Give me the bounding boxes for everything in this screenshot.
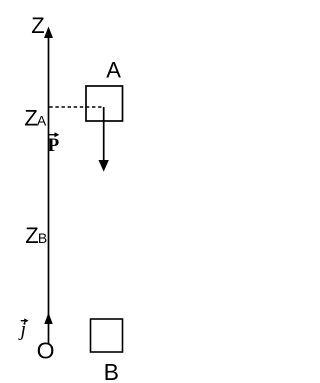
svg-text:B: B [104,359,119,383]
svg-text:B: B [38,230,47,246]
node Z axis top arrowhead [44,27,53,39]
node unit vector j arrowhead on axis [44,313,52,325]
svg-text:Z: Z [31,13,44,38]
node box B [91,319,123,352]
svg-text:P: P [48,135,60,156]
svg-text:O: O [37,338,55,364]
svg-text:Z: Z [24,106,37,131]
svg-text:A: A [37,113,47,129]
svg-text:Z: Z [25,223,38,248]
node weight vector P arrowhead [99,160,109,172]
wire Z axis vertical line [48,31,50,344]
node box A [86,86,123,121]
svg-text:A: A [106,57,121,82]
wire weight vector P shaft [103,107,105,162]
wire dashed line at ZA level [49,106,103,108]
